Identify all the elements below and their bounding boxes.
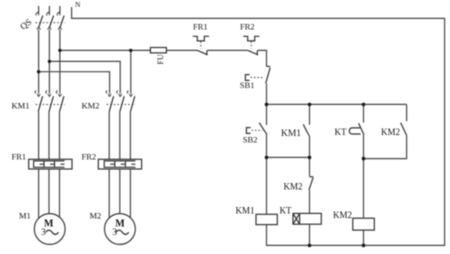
svg-text:FR1: FR1 [193, 22, 208, 32]
svg-text:FU: FU [156, 54, 165, 64]
svg-text:FR1: FR1 [12, 152, 27, 162]
svg-text:KM1: KM1 [12, 100, 30, 110]
svg-text:M2: M2 [90, 211, 102, 221]
svg-text:KM1: KM1 [236, 205, 255, 215]
svg-text:SB1: SB1 [240, 80, 255, 90]
svg-text:KM2: KM2 [333, 210, 352, 220]
svg-text:QS: QS [18, 17, 33, 32]
svg-text:FR2: FR2 [82, 152, 97, 162]
svg-text:KM1: KM1 [281, 129, 301, 139]
svg-text:3: 3 [41, 228, 46, 238]
svg-text:N: N [75, 0, 81, 9]
svg-text:KT: KT [280, 205, 292, 215]
svg-text:KM2: KM2 [284, 181, 303, 191]
svg-text:KM2: KM2 [82, 100, 100, 110]
svg-text:M1: M1 [19, 211, 31, 221]
svg-text:KT: KT [335, 127, 347, 137]
svg-text:SB2: SB2 [243, 135, 258, 145]
svg-text:KM2: KM2 [381, 127, 400, 137]
svg-text:FR2: FR2 [240, 22, 255, 32]
svg-text:3: 3 [112, 228, 117, 238]
